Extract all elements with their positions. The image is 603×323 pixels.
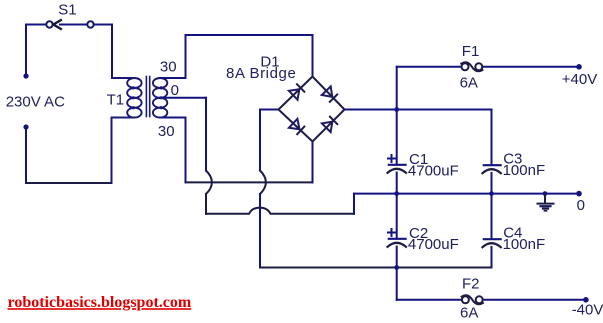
ground symbol — [538, 194, 554, 211]
wire: AC top-left corner to switch — [26, 24, 46, 26]
wire: minus vertical lower — [259, 194, 261, 268]
wire: plus rail from bridge right corner — [345, 109, 492, 111]
switch S1 left contact circle — [46, 21, 52, 27]
wire: F1 to +40V terminal — [482, 66, 579, 68]
svg-text:T1: T1 — [107, 92, 125, 109]
wire: bottom tap vertical down — [185, 118, 187, 183]
svg-text:230V AC: 230V AC — [6, 94, 65, 111]
bridge D1 diamond edges — [279, 77, 345, 142]
wire: 0V rail — [354, 193, 579, 195]
wire: minus rail horizontal — [260, 267, 492, 269]
wire: secondary bottom tap horizontal — [160, 117, 185, 119]
wire: up to fuse F1 row — [396, 67, 398, 110]
capacitor C3 top lead — [491, 110, 493, 166]
capacitor C1 curved plate — [388, 169, 407, 173]
fuse F1 — [461, 62, 482, 71]
capacitor C1 flat plate — [389, 164, 406, 166]
capacitor C4 top lead — [491, 194, 493, 239]
wire: F2 to -40V terminal — [483, 299, 586, 301]
node: AC source bottom terminal dot — [23, 124, 28, 129]
wire: primary top lead horizontal — [112, 77, 134, 79]
wire: primary bottom lead horizontal — [112, 117, 135, 119]
wire A: bottom tap to bridge bottom — [186, 181, 313, 183]
capacitor C4 bottom lead — [491, 247, 493, 268]
node: 0V rail dot at C1 — [394, 191, 399, 196]
node: 0V rail dot at C3 — [489, 191, 494, 196]
wire: primary bottom lead vertical — [111, 118, 113, 184]
svg-text:6A: 6A — [460, 75, 478, 92]
transformer T1 secondary winding — [153, 78, 167, 118]
node: 0V terminal dot — [576, 191, 582, 197]
wire: down from minus rail to F2 row — [396, 268, 398, 300]
transformer T1 secondary winding junction dots — [160, 86, 163, 89]
wire: center tap rises to 0V rail — [353, 194, 355, 214]
switch S1 right contact circle — [87, 21, 93, 27]
svg-text:-40V: -40V — [572, 302, 603, 319]
node: +40V terminal dot — [576, 64, 582, 70]
svg-text:30: 30 — [158, 123, 175, 140]
svg-text:0: 0 — [171, 82, 179, 99]
capacitor C3 bottom lead — [491, 173, 493, 194]
capacitor C2 flat plate — [389, 238, 406, 240]
capacitor C2 top lead — [396, 194, 398, 239]
node: AC source top terminal dot — [23, 73, 28, 78]
wire hop: center tap over wire A — [206, 171, 212, 195]
wire: center tap vertical upper part — [205, 98, 207, 171]
wire hop: minus wire over wire A — [260, 171, 266, 195]
svg-text:0: 0 — [577, 197, 585, 214]
wire: bottom left horizontal to primary — [26, 182, 112, 184]
svg-text:4700uF: 4700uF — [408, 162, 459, 179]
capacitor C1 plus sign — [388, 155, 395, 162]
svg-text:F1: F1 — [462, 43, 480, 60]
wire: F1 row left segment — [397, 66, 462, 68]
diode D1 top-right (pointing to right corner) — [322, 86, 337, 101]
wire: switch to transformer primary top — [94, 25, 112, 79]
capacitor C4 curved plate — [483, 243, 501, 247]
wire: secondary center tap horizontal — [160, 97, 206, 99]
capacitor C1 bottom lead — [396, 173, 398, 194]
svg-text:4700uF: 4700uF — [408, 236, 459, 253]
svg-text:6A: 6A — [460, 304, 478, 321]
wire: secondary top tap to bridge top — [160, 35, 312, 78]
wire: F2 row left segment — [397, 299, 462, 301]
svg-text:8A Bridge: 8A Bridge — [226, 65, 296, 82]
transformer T1 core lines — [145, 77, 147, 117]
capacitor C2 plus sign — [388, 229, 395, 236]
svg-text:S1: S1 — [58, 1, 76, 18]
fuse F2 — [462, 295, 483, 304]
diode D1 top-left (pointing to top corner) — [289, 84, 304, 99]
svg-text:30: 30 — [160, 59, 177, 76]
node: ground junction dot — [543, 191, 548, 196]
node: -40V terminal dot — [583, 297, 589, 303]
wire: left vertical to AC source top terminal — [25, 25, 27, 77]
diode D1 bottom-left (pointing to bottom corner) — [289, 119, 304, 134]
capacitor C2 bottom lead — [396, 247, 398, 268]
capacitor C4 flat plate — [484, 238, 501, 240]
svg-text:roboticbasics.blogspot.com: roboticbasics.blogspot.com — [8, 294, 192, 311]
diode D1 bottom-right (pointing to right corner) — [322, 117, 337, 132]
wire B: center tap horizontal run with hop over minus wire — [206, 208, 354, 214]
wire: center tap vertical lower part — [205, 194, 207, 214]
capacitor C1 top lead — [396, 110, 398, 165]
wire: bridge bottom corner down to wire A — [312, 142, 314, 183]
switch S1 arrow head — [53, 20, 61, 29]
capacitor C3 flat plate — [484, 164, 501, 166]
switch S1 blade wire — [60, 24, 87, 26]
capacitor C3 curved plate — [483, 169, 501, 173]
wire: bridge left corner to minus vertical — [260, 109, 279, 111]
wire: AC source bottom down — [25, 127, 27, 183]
svg-text:100nF: 100nF — [503, 236, 546, 253]
svg-text:+40V: +40V — [562, 71, 597, 88]
capacitor C2 curved plate — [388, 243, 407, 247]
transformer T1 primary winding — [127, 78, 141, 118]
wire: minus vertical upper — [259, 110, 261, 171]
svg-text:100nF: 100nF — [503, 162, 546, 179]
transformer T1 primary winding junction dots — [132, 86, 135, 89]
node: plus rail junction dot — [394, 107, 399, 112]
svg-text:F2: F2 — [462, 276, 480, 293]
node: minus rail junction dot — [394, 265, 399, 270]
